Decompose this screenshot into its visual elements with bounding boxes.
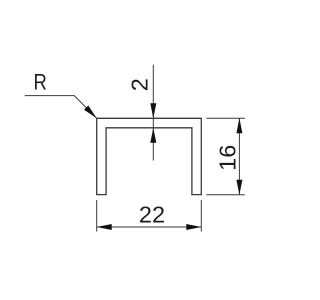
U-channel profile outline	[97, 118, 202, 194]
svg-text:22: 22	[139, 202, 165, 228]
svg-text:R: R	[34, 71, 47, 95]
dimension 22: extension line left	[96, 200, 98, 232]
radius leader line	[25, 96, 97, 119]
dimension 22: dimension line	[97, 226, 202, 228]
svg-text:2: 2	[127, 78, 153, 91]
dimension 16: bottom arrowhead	[236, 180, 242, 195]
dimension 2: dimension line (vertical through wall)	[152, 65, 154, 161]
radius leader arrowhead	[84, 106, 97, 119]
dimension 22: right arrowhead	[186, 224, 201, 230]
dimension 2: upper arrowhead pointing down	[150, 103, 156, 118]
dimension 16: dimension line	[238, 118, 240, 194]
svg-text:16: 16	[215, 145, 241, 171]
dimension 16: extension line bottom	[206, 194, 245, 196]
dimension 16: extension line top	[206, 117, 245, 119]
dimension 22: left arrowhead	[97, 224, 112, 230]
dimension 2: lower arrowhead pointing up	[150, 128, 156, 143]
dimension 16: top arrowhead	[236, 118, 242, 133]
dimension 22: extension line right	[200, 200, 202, 232]
